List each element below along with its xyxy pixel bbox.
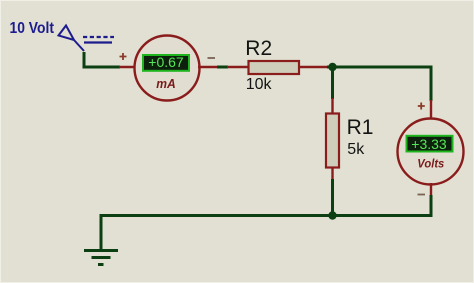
svg-text:R1: R1 bbox=[347, 116, 374, 139]
ammeter minus sign bbox=[208, 57, 216, 59]
resistor R1 top pin bbox=[331, 98, 333, 115]
wire bottom rail bbox=[100, 214, 433, 217]
junction node top bbox=[328, 63, 336, 71]
wire source vertical bbox=[83, 52, 86, 69]
voltmeter bottom pin bbox=[430, 183, 432, 196]
wire voltmeter to bottom rail bbox=[430, 195, 433, 217]
resistor R1 body bbox=[326, 114, 339, 168]
svg-text:R2: R2 bbox=[245, 37, 272, 60]
svg-text:+3.33: +3.33 bbox=[411, 136, 447, 152]
resistor R1 bottom pin bbox=[331, 167, 333, 181]
resistor R2 body bbox=[249, 61, 300, 74]
wire junction down to R1 bbox=[331, 66, 334, 100]
resistor R2 right pin bbox=[298, 66, 328, 68]
ground symbol bbox=[84, 251, 118, 265]
svg-text:10k: 10k bbox=[246, 76, 273, 93]
voltmeter LCD display bbox=[407, 136, 453, 152]
svg-text:Volts: Volts bbox=[417, 157, 444, 171]
wire right vertical down to voltmeter bbox=[430, 66, 433, 102]
wire R2 to voltmeter branch bbox=[327, 66, 433, 69]
battery mark solid line bbox=[84, 41, 112, 43]
ammeter body bbox=[135, 36, 200, 101]
wire source to ammeter bbox=[83, 66, 121, 69]
svg-text:+0.67: +0.67 bbox=[148, 54, 184, 70]
svg-text:10 Volt: 10 Volt bbox=[10, 20, 55, 37]
svg-text:5k: 5k bbox=[347, 141, 365, 158]
voltmeter body bbox=[398, 119, 464, 185]
ammeter plus sign bbox=[120, 53, 127, 60]
ammeter LCD display bbox=[143, 55, 189, 71]
wire ammeter to R2 bbox=[217, 66, 228, 69]
voltmeter minus sign bbox=[418, 194, 426, 196]
power terminal V1 (DC source arrow) bbox=[59, 26, 85, 52]
wire ground stem bbox=[100, 214, 103, 250]
ammeter right pin bbox=[198, 66, 218, 68]
ammeter left pin bbox=[119, 66, 136, 68]
resistor R2 left pin bbox=[227, 66, 249, 68]
junction node bottom bbox=[328, 211, 336, 219]
wire R1 to bottom rail bbox=[331, 179, 334, 217]
svg-text:mA: mA bbox=[156, 76, 176, 91]
voltmeter top pin bbox=[430, 100, 432, 120]
voltmeter plus sign bbox=[418, 103, 425, 110]
battery mark dashed line bbox=[83, 36, 114, 38]
